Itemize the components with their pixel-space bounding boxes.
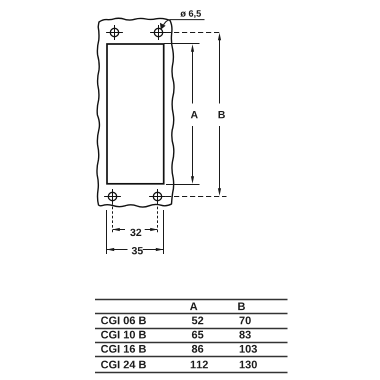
- value A=112: [191, 361, 208, 369]
- value B=83: [239, 331, 251, 339]
- centre line dashed vertical right: [157, 202, 159, 234]
- value B=103: [240, 345, 257, 353]
- panel plate with torn break edges: [97, 18, 174, 207]
- dimensions table rules: [95, 300, 288, 373]
- value A=65: [192, 331, 204, 339]
- centre line dashed top: [166, 32, 221, 34]
- extension line cutout bottom edge: [166, 184, 200, 186]
- label dia 6,5 with leader arrow: [160, 10, 205, 29]
- table row label CGI 16 B: [101, 345, 146, 353]
- rectangular cutout: [107, 44, 164, 184]
- hole bottom-left: [104, 189, 121, 204]
- table row label CGI 24 B: [101, 361, 146, 369]
- table row label CGI 10 B: [101, 331, 146, 339]
- table row label CGI 06 B: [101, 317, 146, 325]
- hole top-right: [150, 25, 167, 40]
- extension line 35 left: [106, 210, 108, 254]
- hole bottom-right: [149, 189, 166, 204]
- table header B: [238, 303, 245, 311]
- centre line dashed bottom: [166, 196, 227, 198]
- dimension 32 horizontal: [112, 228, 157, 236]
- value A=86: [192, 345, 204, 353]
- dimension A vertical: [191, 44, 198, 183]
- value B=130: [240, 361, 257, 369]
- extension line cutout top edge: [164, 43, 200, 45]
- hole top-left: [106, 25, 123, 40]
- value A=52: [192, 317, 204, 325]
- extension line 35 right: [163, 210, 165, 254]
- table header A: [190, 303, 197, 311]
- value B=70: [240, 317, 251, 325]
- dimension 35 horizontal: [107, 247, 164, 254]
- centre line dashed vertical left: [112, 202, 114, 234]
- dimension B vertical: [218, 33, 225, 196]
